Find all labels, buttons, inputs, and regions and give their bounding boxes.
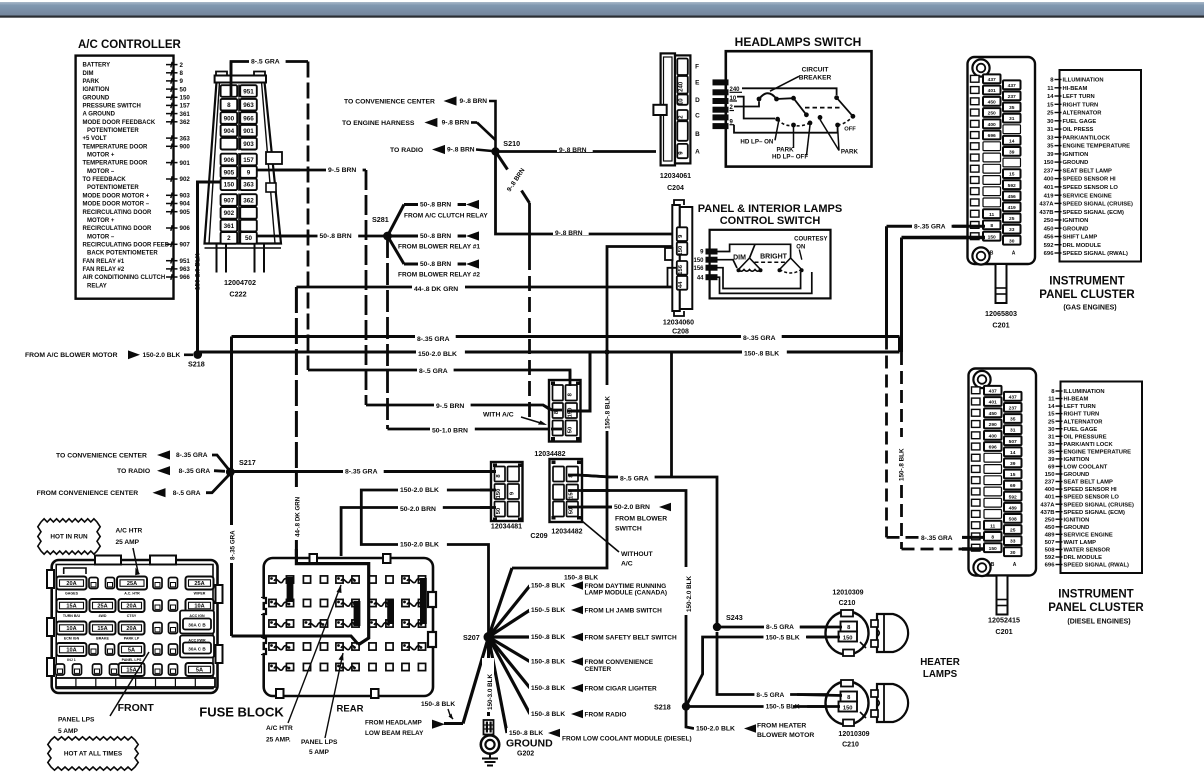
svg-text:20A: 20A: [66, 581, 76, 587]
svg-text:15: 15: [1009, 172, 1015, 178]
svg-text:FUEL GAGE: FUEL GAGE: [1063, 119, 1097, 125]
svg-text:904: 904: [224, 128, 235, 135]
svg-text:TEMPERATURE DOOR: TEMPERATURE DOOR: [83, 161, 149, 167]
svg-text:9-.8 BRN: 9-.8 BRN: [559, 147, 587, 154]
panel lamps control switch box: [710, 230, 831, 299]
svg-text:35: 35: [1047, 144, 1054, 150]
splice S207 fan of ground wires: [444, 568, 530, 733]
svg-text:5 AMP: 5 AMP: [58, 728, 79, 735]
svg-text:ALTERNATOR: ALTERNATOR: [1063, 111, 1103, 117]
svg-text:902: 902: [224, 210, 235, 217]
svg-text:MODE DOOR MOTOR +: MODE DOOR MOTOR +: [83, 193, 150, 199]
svg-text:150-.8 BLK: 150-.8 BLK: [531, 685, 565, 692]
svg-text:WITHOUT: WITHOUT: [621, 551, 654, 558]
svg-text:508: 508: [1009, 517, 1017, 523]
svg-text:905: 905: [224, 169, 235, 176]
label 44-.8 DK GRN: [412, 284, 465, 293]
svg-text:INSTRUMENT: INSTRUMENT: [1049, 276, 1124, 288]
label A/C HTR 25 AMP front with pointer: [116, 528, 143, 576]
svg-text:150-2.0 BLK: 150-2.0 BLK: [400, 542, 439, 549]
svg-text:FROM LOW COOLANT MODULE (DIESE: FROM LOW COOLANT MODULE (DIESEL): [562, 736, 692, 743]
wire from S243 down to heater lamp 2: [717, 632, 840, 695]
vertical label 8-.35 GRA below S217: [225, 525, 237, 563]
svg-text:11: 11: [1048, 397, 1055, 403]
svg-text:39: 39: [1048, 457, 1055, 463]
svg-text:SPEED SIGNAL (CRUISE): SPEED SIGNAL (CRUISE): [1064, 502, 1135, 508]
svg-text:507: 507: [1045, 540, 1056, 546]
label 12034060 C208: [663, 320, 694, 336]
svg-text:SEAT BELT LAMP: SEAT BELT LAMP: [1063, 169, 1113, 175]
svg-text:FROM HEADLAMP: FROM HEADLAMP: [365, 720, 423, 727]
svg-text:LEFT TURN: LEFT TURN: [1064, 404, 1096, 410]
wire 44-.8 DK GRN horizontal to C208 pin 44: [296, 286, 672, 289]
svg-text:250: 250: [988, 111, 996, 117]
svg-text:150: 150: [988, 234, 996, 240]
label FUSE BLOCK: [199, 705, 284, 720]
wire 150-2.0 BLK to 12034481 pin 150: [361, 490, 492, 637]
svg-text:CENTER: CENTER: [585, 666, 612, 673]
accessory circuit breaker ACC IGN 30A: [180, 611, 214, 634]
connector 12034482 C209: [550, 459, 583, 522]
svg-text:C208: C208: [672, 329, 689, 336]
labels 12065803 C201 gas: [985, 309, 1017, 330]
wire 150-.5 BLK from S218 to heater lamp 2: [686, 705, 840, 708]
svg-text:RIGHT TURN: RIGHT TURN: [1063, 102, 1099, 108]
svg-text:S218: S218: [188, 360, 205, 369]
svg-text:ILLUMINATION: ILLUMINATION: [1063, 78, 1104, 84]
svg-text:25: 25: [1047, 111, 1054, 117]
12034482 wire stubs: [543, 352, 590, 429]
heater lamp 1 wire stubs: [800, 627, 842, 637]
heater lamp 2 wire stubs: [793, 695, 842, 707]
svg-text:156: 156: [678, 264, 684, 274]
svg-text:8: 8: [991, 535, 994, 541]
svg-text:WITH A/C: WITH A/C: [483, 412, 514, 419]
label 12034481: [491, 524, 522, 531]
svg-text:SPEED SENSOR HI: SPEED SENSOR HI: [1064, 487, 1118, 493]
svg-text:25 AMP: 25 AMP: [116, 539, 140, 546]
gas cluster wire stubs: [930, 226, 985, 237]
svg-text:240: 240: [679, 81, 685, 92]
svg-text:12034061: 12034061: [660, 173, 691, 180]
svg-text:FROM BLOWER RELAY #1: FROM BLOWER RELAY #1: [398, 244, 480, 251]
svg-text:MOTOR +: MOTOR +: [87, 153, 115, 159]
svg-text:44: 44: [697, 275, 704, 281]
svg-text:CTSY: CTSY: [127, 614, 137, 618]
svg-text:150-.8 BLK: 150-.8 BLK: [744, 351, 779, 358]
svg-text:8-.35 GRA: 8-.35 GRA: [345, 469, 378, 476]
label PANEL LPS 5 AMP front with pointer: [58, 652, 149, 735]
svg-text:SHIFT LAMP: SHIFT LAMP: [1063, 235, 1098, 241]
wire 8-.35 GRA into rear fuse block: [265, 636, 358, 644]
svg-text:14: 14: [1009, 138, 1015, 144]
svg-text:8-.35 GRA: 8-.35 GRA: [176, 452, 208, 459]
svg-text:951: 951: [243, 88, 254, 95]
svg-text:8-.5 GRA: 8-.5 GRA: [756, 692, 784, 699]
C222 wire stubs over shell: [196, 62, 310, 237]
svg-text:11: 11: [1047, 86, 1054, 92]
svg-text:50-.8 BRN: 50-.8 BRN: [320, 233, 352, 240]
svg-text:B: B: [991, 562, 995, 568]
C209 wire stubs: [480, 472, 614, 508]
label 12034061 C204: [660, 173, 691, 192]
svg-text:31: 31: [1048, 434, 1055, 440]
splice S218 lower: [654, 702, 690, 711]
svg-text:DRL MODULE: DRL MODULE: [1064, 555, 1103, 561]
heater lamp connector C210 lower: [826, 680, 909, 726]
svg-text:10: 10: [679, 98, 685, 105]
svg-text:903: 903: [180, 193, 191, 200]
svg-text:363: 363: [180, 135, 191, 142]
svg-text:WAIT LAMP: WAIT LAMP: [1064, 540, 1097, 546]
svg-text:30: 30: [1010, 550, 1016, 556]
svg-text:DRL MODULE: DRL MODULE: [1063, 243, 1102, 249]
svg-text:LAMP MODULE (CANADA): LAMP MODULE (CANADA): [585, 590, 668, 597]
rotated label 150-.8 BLK at diesel riser: [894, 437, 906, 483]
wire 50-2.0 BRN to 12034481 pin 50: [341, 508, 492, 557]
A/C controller pin list box: [76, 56, 191, 299]
svg-text:F: F: [695, 64, 699, 71]
svg-text:50-.8 BRN: 50-.8 BRN: [420, 261, 451, 268]
svg-text:14: 14: [1047, 94, 1054, 100]
svg-text:BRAKE: BRAKE: [96, 636, 109, 640]
wire 150-3.0 BLK from S207 to ground G202: [487, 637, 490, 716]
wire 8-.5 GRA from C209 to S243: [578, 475, 717, 627]
svg-text:A.C. HTR: A.C. HTR: [124, 591, 140, 595]
rear fuse block outline: [259, 554, 437, 698]
label 50-.8 BRN near C222: [318, 231, 359, 240]
svg-text:5A: 5A: [128, 648, 135, 654]
svg-text:12010309: 12010309: [838, 731, 869, 738]
svg-text:12034482: 12034482: [534, 451, 565, 458]
svg-text:150-.8 BLK: 150-.8 BLK: [531, 583, 565, 590]
svg-text:8: 8: [180, 70, 184, 77]
svg-text:MOTOR –: MOTOR –: [87, 169, 115, 175]
svg-text:BREAKER: BREAKER: [799, 75, 832, 82]
svg-text:15A: 15A: [97, 626, 107, 632]
label HEATER LAMPS: [920, 657, 960, 680]
svg-text:30: 30: [1047, 119, 1054, 125]
svg-text:C222: C222: [229, 290, 246, 299]
svg-text:WIPER: WIPER: [194, 591, 206, 595]
svg-text:FROM CONVENIENCE CENTER: FROM CONVENIENCE CENTER: [37, 490, 139, 497]
vertical label 150-2.0 BLK right: [680, 567, 694, 615]
svg-text:B: B: [695, 131, 700, 138]
svg-text:39: 39: [1010, 461, 1016, 467]
labels right of C208: [741, 333, 787, 358]
svg-text:A: A: [1013, 562, 1017, 568]
svg-text:5 AMP: 5 AMP: [309, 749, 330, 756]
labels 150-2.0 BLK and 50-2.0 BRN to 12034481: [398, 485, 447, 549]
svg-text:SPEED SENSOR HI: SPEED SENSOR HI: [1063, 177, 1117, 183]
svg-text:SPEED SIGNAL (CRUISE): SPEED SIGNAL (CRUISE): [1063, 202, 1134, 208]
wire 150-.8 BLK from C209 pin 150 down to S218: [578, 491, 686, 707]
svg-text:8-.5 GRA: 8-.5 GRA: [251, 59, 280, 66]
svg-text:TO CONVENIENCE CENTER: TO CONVENIENCE CENTER: [344, 98, 435, 105]
connector C222 body: [205, 72, 282, 273]
svg-text:(GAS ENGINES): (GAS ENGINES): [1063, 305, 1116, 312]
panel lamps switch pins: [693, 249, 717, 282]
svg-text:GROUND: GROUND: [1064, 472, 1090, 478]
svg-text:INJ 1: INJ 1: [67, 658, 76, 662]
svg-text:150-2.0 BLK: 150-2.0 BLK: [418, 351, 457, 358]
svg-text:150-2.0 BLK: 150-2.0 BLK: [143, 352, 181, 359]
svg-text:8-.35 GRA: 8-.35 GRA: [921, 535, 953, 542]
wire 150-2.0 BLK from S218 down to heater blower label: [686, 707, 694, 729]
C208 pin 156 stub: [668, 268, 677, 287]
pointer line to A/C HTR 25 AMP fuse in rear block: [288, 585, 342, 723]
svg-text:905: 905: [180, 209, 191, 216]
mid harness labels: [415, 334, 475, 435]
svg-text:HI-BEAM: HI-BEAM: [1063, 86, 1088, 92]
svg-text:FROM A/C CLUTCH RELAY: FROM A/C CLUTCH RELAY: [404, 213, 488, 220]
svg-text:696: 696: [1045, 563, 1056, 569]
starburst HOT AT ALL TIMES: [48, 737, 138, 770]
svg-text:GROUND: GROUND: [83, 95, 110, 101]
svg-text:696: 696: [989, 445, 997, 451]
svg-text:450: 450: [1044, 226, 1055, 232]
wire 150-2.0 BLK from S218 across to instrument cluster: [198, 337, 900, 353]
headlamps switch pins: [713, 79, 743, 129]
solid riser 150 up to gas cluster pin 150: [902, 238, 987, 353]
svg-text:FROM BLOWER RELAY #2: FROM BLOWER RELAY #2: [398, 272, 480, 279]
svg-text:437A: 437A: [1040, 502, 1055, 508]
svg-text:489: 489: [1009, 505, 1017, 511]
svg-text:8-.35 GRA: 8-.35 GRA: [230, 530, 237, 560]
svg-text:50-.8 BRN: 50-.8 BRN: [420, 233, 451, 240]
svg-text:33: 33: [1010, 539, 1016, 545]
vertical wire 150-.8 BLK from C208 pin 150 down to S207 harness: [512, 247, 672, 569]
svg-text:419: 419: [1044, 193, 1055, 199]
svg-text:12034060: 12034060: [663, 320, 694, 327]
label FROM CONVENIENCE CENTER at S217: [37, 474, 231, 498]
svg-text:GROUND: GROUND: [506, 738, 553, 750]
svg-text:MOTOR +: MOTOR +: [87, 218, 115, 224]
svg-text:69: 69: [1048, 465, 1055, 471]
svg-text:25A: 25A: [97, 604, 107, 610]
label TO CONVENIENCE CENTER with arrow: [344, 96, 496, 152]
svg-text:150: 150: [843, 636, 853, 642]
svg-text:8-.5 GRA: 8-.5 GRA: [419, 368, 448, 375]
svg-text:FUSE BLOCK: FUSE BLOCK: [199, 705, 284, 720]
instrument panel cluster diesel connector and pin list: [969, 369, 1143, 615]
vertical label 150-3.0 BLK: [482, 658, 494, 712]
svg-text:ILLUMINATION: ILLUMINATION: [1064, 389, 1105, 395]
svg-text:15A: 15A: [66, 604, 76, 610]
svg-text:RIGHT TURN: RIGHT TURN: [1064, 412, 1100, 418]
label FROM A/C BLOWER MOTOR with arrow: [25, 350, 193, 359]
svg-text:450: 450: [989, 411, 997, 417]
wire 44-.8 DK GRN routing inside rear fuse block: [296, 549, 368, 645]
INSTRUMENT PANEL CLUSTER diesel title: [1048, 589, 1144, 626]
svg-text:31: 31: [1009, 116, 1015, 122]
svg-text:400: 400: [989, 433, 997, 439]
svg-text:PARK: PARK: [83, 79, 100, 85]
svg-text:LAMPS: LAMPS: [923, 669, 958, 680]
svg-text:50: 50: [180, 86, 187, 93]
svg-text:157: 157: [243, 157, 254, 164]
svg-text:592: 592: [1009, 494, 1017, 500]
svg-text:TO FEEDBACK: TO FEEDBACK: [83, 177, 127, 183]
svg-text:20A: 20A: [126, 626, 136, 632]
svg-text:150-.8 BLK: 150-.8 BLK: [531, 659, 565, 666]
svg-text:69: 69: [1010, 483, 1016, 489]
svg-text:437B: 437B: [1039, 210, 1053, 216]
svg-text:DIM: DIM: [83, 71, 94, 77]
rear fuse block terminals grid: [269, 576, 427, 671]
svg-text:PANEL CLUSTER: PANEL CLUSTER: [1048, 602, 1144, 614]
svg-text:30: 30: [1009, 238, 1015, 244]
svg-text:437: 437: [1009, 394, 1017, 400]
svg-text:437B: 437B: [1040, 510, 1054, 516]
svg-text:HD LP– ON: HD LP– ON: [740, 138, 774, 145]
svg-text:A/C: A/C: [621, 561, 633, 568]
INSTRUMENT PANEL CLUSTER gas title: [1039, 276, 1135, 312]
svg-text:8-.5 GRA: 8-.5 GRA: [173, 490, 201, 497]
svg-text:11: 11: [989, 212, 994, 218]
svg-text:MODE DOOR MOTOR –: MODE DOOR MOTOR –: [83, 202, 150, 208]
accessory circuit breaker ACC PWR 30A: [180, 636, 214, 658]
circuit breaker symbol: [757, 67, 832, 102]
svg-text:150-2.0 BLK: 150-2.0 BLK: [400, 487, 439, 494]
svg-text:HEATER: HEATER: [920, 657, 960, 668]
svg-text:FROM BLOWER: FROM BLOWER: [615, 516, 667, 523]
svg-text:150-.8 BLK: 150-.8 BLK: [531, 711, 565, 718]
svg-text:C: C: [695, 112, 700, 119]
label REAR: [337, 704, 364, 715]
svg-text:TO RADIO: TO RADIO: [390, 147, 423, 154]
svg-text:PRESSURE SWITCH: PRESSURE SWITCH: [83, 104, 141, 110]
svg-text:150-2.0 BLK: 150-2.0 BLK: [686, 576, 693, 612]
label 12010309 C210 upper: [832, 590, 863, 607]
instrument panel cluster gas connector and pin list: [968, 57, 1142, 303]
vertical label 44-.8 DK GRN: [288, 487, 302, 540]
svg-text:ECM IGN: ECM IGN: [64, 636, 80, 640]
svg-text:BATTERY: BATTERY: [83, 63, 111, 69]
svg-text:150-.8 BLK: 150-.8 BLK: [899, 448, 906, 481]
label 12034482 with A/C: [534, 451, 565, 458]
svg-text:437A: 437A: [1039, 202, 1054, 208]
svg-text:TEMPERATURE DOOR: TEMPERATURE DOOR: [83, 144, 149, 150]
svg-text:BLOWER MOTOR: BLOWER MOTOR: [757, 732, 814, 739]
svg-text:8: 8: [227, 102, 231, 109]
svg-text:50-2.0 BRN: 50-2.0 BRN: [614, 504, 650, 511]
svg-text:TURN B/U: TURN B/U: [63, 614, 81, 618]
svg-text:150-2.0 BLK: 150-2.0 BLK: [195, 253, 202, 290]
svg-text:15A: 15A: [126, 668, 136, 674]
svg-text:901: 901: [243, 128, 254, 135]
svg-text:10A: 10A: [194, 604, 204, 610]
svg-text:FAN RELAY #2: FAN RELAY #2: [83, 267, 125, 273]
splice S218 left: [188, 350, 205, 368]
C222 side tab: [266, 152, 282, 192]
svg-text:10A: 10A: [66, 626, 76, 632]
svg-text:S243: S243: [726, 613, 743, 622]
svg-text:FRONT: FRONT: [118, 702, 155, 714]
svg-text:35: 35: [1048, 449, 1055, 455]
label WITHOUT A/C with pointer: [582, 521, 654, 568]
svg-text:450: 450: [988, 99, 996, 105]
wire 150-2.0 BLK from C222 pin 150 down to S218: [196, 182, 222, 355]
label TO RADIO with arrow: [390, 145, 492, 155]
svg-text:966: 966: [180, 274, 191, 281]
svg-text:8-.5 GRA: 8-.5 GRA: [766, 624, 794, 631]
svg-text:8-.35 GRA: 8-.35 GRA: [417, 336, 450, 343]
svg-text:30A C B: 30A C B: [188, 647, 206, 652]
svg-text:A GROUND: A GROUND: [83, 112, 116, 118]
svg-text:362: 362: [243, 197, 254, 204]
svg-text:OFF: OFF: [844, 127, 856, 133]
connector 12034481: [491, 462, 523, 521]
svg-text:RECIRCULATING DOOR: RECIRCULATING DOOR: [83, 226, 153, 232]
svg-text:PARK/ANTILOCK: PARK/ANTILOCK: [1063, 135, 1111, 141]
connector 12034482 with A/C: [549, 380, 581, 442]
svg-text:450: 450: [1045, 525, 1056, 531]
svg-text:12052415: 12052415: [988, 616, 1020, 625]
svg-text:B: B: [990, 251, 994, 257]
svg-text:15: 15: [1010, 472, 1016, 478]
svg-text:901: 901: [180, 160, 191, 167]
svg-text:IGNITION: IGNITION: [1063, 218, 1089, 224]
svg-text:S207: S207: [463, 633, 480, 642]
svg-text:50-.8 BRN: 50-.8 BRN: [420, 202, 451, 209]
svg-text:437: 437: [1008, 83, 1016, 89]
pointer line to PANEL LPS fuse in rear block: [325, 653, 344, 738]
svg-text:S217: S217: [239, 458, 256, 467]
label 9-.5 BRN near C222: [326, 165, 363, 174]
svg-text:WATER SENSOR: WATER SENSOR: [1064, 548, 1111, 554]
svg-text:RELAY: RELAY: [87, 283, 107, 289]
svg-text:400: 400: [1044, 177, 1055, 183]
wire 50-1.0 BRN from S281 down: [388, 236, 433, 429]
svg-text:44: 44: [678, 281, 684, 288]
svg-text:50-1.0 BRN: 50-1.0 BRN: [432, 427, 468, 434]
connector C208 body: [665, 200, 692, 316]
svg-text:150-.5 BLK: 150-.5 BLK: [766, 634, 800, 641]
svg-text:150-.5 BLK: 150-.5 BLK: [531, 607, 565, 614]
label 8-.35 GRA at diesel cluster: [919, 533, 959, 542]
wire 8-.5 GRA horizontal to 12034482 with A/C: [308, 370, 570, 385]
wire 9-.5 BRN into 12034482 pin 8: [436, 405, 552, 411]
svg-text:S281: S281: [372, 215, 389, 224]
svg-text:14: 14: [1010, 450, 1016, 456]
starburst HOT IN RUN: [38, 519, 100, 554]
svg-text:+5 VOLT: +5 VOLT: [83, 136, 107, 142]
svg-text:C201: C201: [992, 321, 1009, 330]
solid riser 8-.35 GRA up to gas cluster pin 8: [887, 226, 987, 336]
svg-text:C210: C210: [842, 742, 859, 749]
C204 pin letters: [695, 64, 700, 156]
dashed wire 150-.8 BLK down to diesel cluster: [902, 352, 987, 549]
svg-text:SPEED SIGNAL (RWAL): SPEED SIGNAL (RWAL): [1064, 563, 1130, 569]
svg-text:GROUND: GROUND: [1063, 160, 1089, 166]
label TO CONVENIENCE CENTER at S217: [56, 450, 230, 471]
diesel cluster wire stubs: [962, 537, 985, 549]
label GROUND G202: [506, 738, 553, 758]
svg-text:25A: 25A: [127, 581, 137, 587]
label WITH A/C with pointer: [483, 412, 547, 426]
svg-text:E: E: [695, 80, 700, 87]
svg-text:9: 9: [180, 78, 184, 85]
svg-text:ON: ON: [796, 245, 805, 251]
svg-text:DIM: DIM: [733, 255, 746, 262]
svg-text:FROM LH JAMB SWITCH: FROM LH JAMB SWITCH: [585, 607, 663, 614]
svg-text:IGNITION: IGNITION: [1064, 457, 1090, 463]
svg-text:361: 361: [224, 223, 235, 230]
front fuse block bottom terminal strip: [56, 678, 215, 687]
svg-text:150: 150: [224, 182, 235, 189]
label A/C HTR 25 AMP rear: [266, 725, 293, 744]
